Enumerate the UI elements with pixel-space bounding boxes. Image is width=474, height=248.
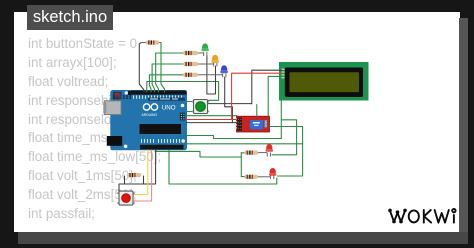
svg-text:UNO: UNO bbox=[162, 104, 176, 111]
svg-text:ARDUINO: ARDUINO bbox=[142, 113, 158, 117]
